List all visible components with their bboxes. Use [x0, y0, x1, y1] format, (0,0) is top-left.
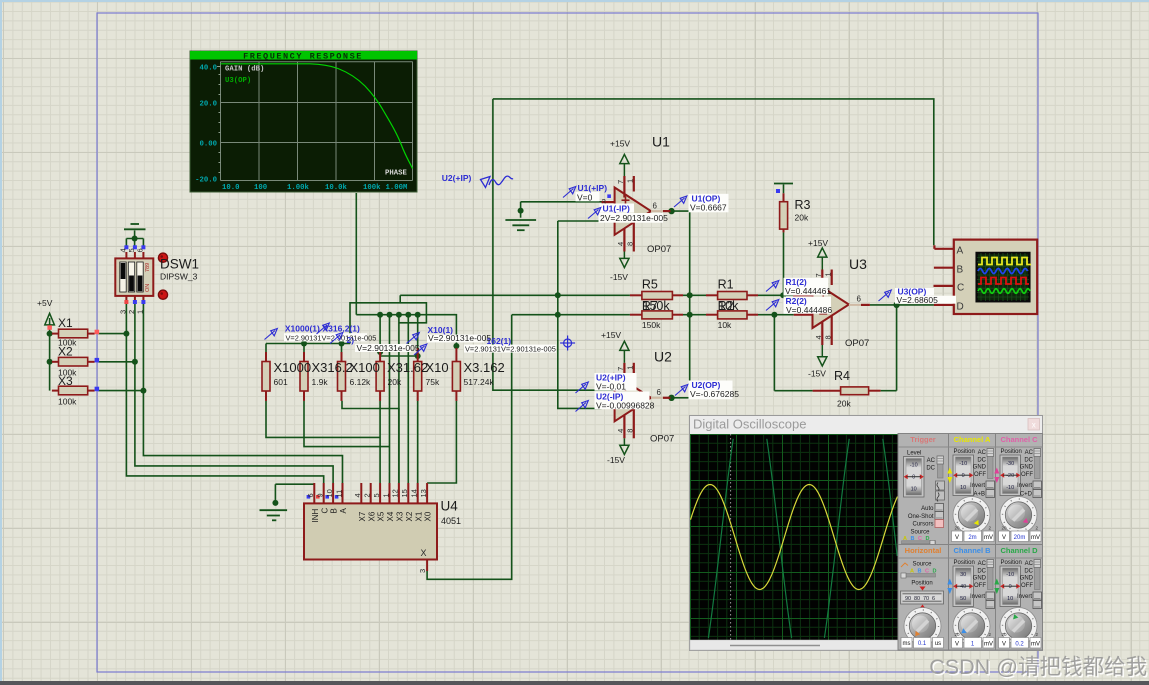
svg-text:0.1: 0.1 [918, 641, 927, 647]
svg-text:PHASE: PHASE [385, 170, 408, 178]
svg-text:C: C [320, 508, 329, 514]
svg-text:X2: X2 [405, 511, 414, 521]
svg-text:150k: 150k [643, 299, 671, 313]
svg-text:Position: Position [1001, 560, 1022, 566]
svg-text:Level: Level [907, 451, 921, 457]
svg-text:0: 0 [912, 475, 915, 481]
svg-text:601: 601 [274, 377, 288, 387]
svg-text:6: 6 [135, 248, 144, 252]
svg-text:V=-0.676285: V=-0.676285 [690, 389, 739, 399]
svg-text:6.12k: 6.12k [350, 377, 372, 387]
svg-text:mV: mV [1031, 642, 1040, 648]
svg-text:0.2: 0.2 [1015, 642, 1024, 648]
svg-text:789: 789 [145, 263, 151, 272]
svg-text:X10: X10 [426, 360, 449, 375]
svg-text:GND: GND [1020, 576, 1034, 582]
svg-text:70: 70 [923, 596, 929, 602]
svg-text:U1(-IP): U1(-IP) [603, 204, 631, 214]
svg-text:40: 40 [960, 584, 966, 590]
svg-text:10: 10 [960, 485, 966, 491]
svg-text:GND: GND [973, 465, 987, 471]
svg-text:X0: X0 [424, 511, 433, 521]
svg-text:U1: U1 [652, 134, 670, 150]
svg-text:mV: mV [984, 642, 993, 648]
svg-text:V=0.444486: V=0.444486 [786, 305, 832, 315]
svg-text:X5: X5 [377, 511, 386, 521]
svg-text:4: 4 [616, 242, 625, 246]
svg-text:V=2.68605: V=2.68605 [897, 295, 939, 305]
svg-text:mV: mV [1031, 535, 1040, 541]
svg-text:Source: Source [912, 562, 932, 568]
svg-text:U3(OP): U3(OP) [225, 77, 251, 85]
svg-text:-10: -10 [1006, 572, 1014, 578]
svg-text:B: B [330, 508, 339, 513]
svg-text:80: 80 [914, 596, 920, 602]
svg-text:10.0: 10.0 [222, 184, 240, 192]
svg-text:20k: 20k [795, 213, 809, 223]
svg-text:+5V: +5V [37, 298, 53, 308]
svg-text:20k: 20k [837, 399, 851, 409]
svg-text:R3: R3 [795, 198, 811, 212]
svg-text:0.00: 0.00 [199, 141, 217, 149]
svg-text:AC: AC [1025, 561, 1034, 567]
svg-text:C: C [957, 283, 964, 294]
svg-text:Invert: Invert [970, 594, 985, 600]
svg-text:100k: 100k [58, 397, 77, 407]
svg-text:12: 12 [391, 489, 400, 497]
svg-text:1.00k: 1.00k [287, 184, 310, 192]
svg-text:Position: Position [954, 560, 975, 566]
svg-text:V=2.90131V=2.90131e-005: V=2.90131V=2.90131e-005 [286, 334, 377, 343]
svg-text:6: 6 [657, 388, 662, 397]
svg-text:Channel C: Channel C [1000, 435, 1038, 444]
svg-text:AC: AC [978, 561, 987, 567]
svg-text:X: X [421, 548, 427, 558]
svg-text:20m: 20m [1014, 535, 1026, 541]
svg-text:GAIN (dB): GAIN (dB) [225, 65, 264, 73]
svg-text:1.00M: 1.00M [386, 184, 409, 192]
svg-text:Channel B: Channel B [953, 546, 991, 555]
svg-text:X316.2: X316.2 [312, 360, 353, 375]
svg-text:5: 5 [372, 493, 381, 497]
svg-text:-30: -30 [1006, 461, 1014, 467]
svg-text:20: 20 [1002, 526, 1008, 531]
svg-text:20: 20 [955, 526, 961, 531]
svg-text:V=2.90131e-005: V=2.90131e-005 [428, 333, 491, 343]
svg-text:100k: 100k [363, 184, 381, 192]
svg-text:Invert: Invert [1017, 483, 1032, 489]
svg-text:DC: DC [977, 568, 986, 574]
svg-text:OFF: OFF [1021, 583, 1033, 589]
svg-text:OP07: OP07 [647, 244, 671, 255]
svg-text:Cursors: Cursors [912, 522, 933, 528]
svg-text:V=0: V=0 [577, 192, 593, 202]
svg-text:1: 1 [626, 179, 635, 183]
svg-text:7: 7 [814, 273, 823, 277]
svg-text:U1(+IP): U1(+IP) [578, 183, 608, 193]
svg-text:100: 100 [254, 184, 267, 192]
svg-text:7: 7 [616, 367, 625, 371]
svg-text:+15V: +15V [601, 330, 621, 340]
svg-text:6: 6 [932, 596, 935, 602]
svg-text:ms: ms [903, 641, 911, 647]
svg-text:6: 6 [306, 493, 315, 497]
svg-text:DC: DC [1024, 568, 1033, 574]
svg-text:-10: -10 [959, 461, 967, 467]
svg-text:V=2.90131e-005: V=2.90131e-005 [357, 343, 420, 353]
svg-text:4: 4 [814, 335, 823, 339]
svg-text:X3: X3 [396, 511, 405, 521]
svg-text:X4: X4 [386, 511, 395, 521]
svg-text:X100: X100 [350, 360, 380, 375]
svg-text:10: 10 [325, 489, 334, 497]
svg-text:DC: DC [977, 457, 986, 463]
svg-text:11: 11 [334, 490, 343, 498]
svg-text:GND: GND [1020, 465, 1034, 471]
svg-text:X7: X7 [358, 511, 367, 521]
svg-text:X3: X3 [58, 374, 73, 388]
svg-text:4051: 4051 [441, 516, 461, 526]
svg-text:1: 1 [626, 366, 635, 370]
svg-text:150k: 150k [642, 320, 661, 330]
svg-text:517.24k: 517.24k [464, 377, 495, 387]
svg-text:-15V: -15V [610, 272, 628, 282]
svg-text:AC: AC [1025, 450, 1034, 456]
svg-text:Digital Oscilloscope: Digital Oscilloscope [693, 417, 806, 432]
svg-text:us: us [935, 641, 941, 647]
svg-text:V=2.90131V=2.90131e-005: V=2.90131V=2.90131e-005 [465, 345, 556, 354]
svg-text:Source: Source [910, 530, 930, 536]
svg-text:OP07: OP07 [845, 338, 869, 349]
svg-text:2: 2 [363, 493, 372, 497]
svg-text:30: 30 [960, 572, 966, 578]
svg-text:6: 6 [653, 202, 658, 211]
svg-text:1: 1 [381, 493, 390, 497]
svg-text:X6: X6 [367, 511, 376, 521]
svg-text:75k: 75k [426, 377, 440, 387]
svg-text:-20: -20 [1006, 473, 1014, 479]
svg-text:Position: Position [1001, 449, 1022, 455]
svg-text:10: 10 [1007, 596, 1013, 602]
svg-text:3: 3 [418, 569, 427, 573]
svg-text:R4: R4 [834, 369, 850, 383]
svg-text:X1: X1 [414, 511, 423, 521]
svg-text:8: 8 [626, 429, 635, 433]
svg-text:U2(+IP): U2(+IP) [442, 173, 472, 183]
svg-text:FREQUENCY RESPONSE: FREQUENCY RESPONSE [243, 51, 363, 61]
svg-text:AC: AC [978, 450, 987, 456]
svg-text:DC: DC [1024, 457, 1033, 463]
svg-text:OFF: OFF [974, 472, 986, 478]
svg-text:ON: ON [145, 284, 151, 292]
svg-text:V=-0.00996828: V=-0.00996828 [596, 401, 655, 411]
svg-text:OFF: OFF [974, 583, 986, 589]
svg-text:V=0.6667: V=0.6667 [690, 202, 727, 212]
svg-text:Horizontal: Horizontal [905, 546, 942, 555]
svg-text:15: 15 [400, 489, 409, 497]
svg-text:R5: R5 [642, 278, 658, 292]
svg-text:10.0k: 10.0k [325, 184, 348, 192]
svg-text:-10: -10 [910, 463, 918, 469]
svg-text:4: 4 [353, 493, 362, 497]
svg-text:U4: U4 [441, 499, 459, 514]
svg-text:0: 0 [1009, 584, 1012, 590]
svg-text:AC: AC [927, 458, 936, 464]
svg-text:Invert: Invert [1017, 594, 1032, 600]
svg-text:Trigger: Trigger [910, 435, 936, 444]
svg-text:DSW1: DSW1 [160, 257, 199, 272]
svg-text:Invert: Invert [970, 483, 985, 489]
svg-text:X1: X1 [58, 316, 73, 330]
svg-text:7: 7 [616, 180, 625, 184]
svg-text:20: 20 [955, 632, 961, 637]
svg-text:2V=2.90131e-005: 2V=2.90131e-005 [600, 213, 668, 223]
svg-text:V=0.444461: V=0.444461 [785, 286, 831, 296]
svg-text:OP07: OP07 [650, 434, 674, 445]
svg-text:D: D [957, 302, 964, 313]
svg-text:20: 20 [1002, 632, 1008, 637]
svg-text:40.0: 40.0 [199, 65, 217, 73]
svg-text:14: 14 [410, 489, 419, 497]
svg-text:A: A [339, 508, 348, 514]
svg-text:V: V [955, 535, 959, 541]
svg-text:DIPSW_3: DIPSW_3 [160, 272, 198, 282]
svg-text:GND: GND [973, 576, 987, 582]
svg-text:2m: 2m [968, 535, 976, 541]
svg-text:V: V [955, 642, 959, 648]
svg-text:-10: -10 [1006, 485, 1014, 491]
svg-text:20k: 20k [388, 377, 402, 387]
svg-text:1: 1 [824, 272, 833, 276]
svg-text:10k: 10k [718, 320, 732, 330]
svg-text:Channel A: Channel A [954, 435, 991, 444]
svg-text:R1: R1 [718, 278, 734, 292]
svg-text:Position: Position [911, 581, 932, 587]
svg-text:0: 0 [962, 473, 965, 479]
svg-text:V: V [1002, 642, 1006, 648]
svg-text:20.0: 20.0 [199, 101, 217, 109]
svg-text:U3: U3 [849, 256, 867, 272]
svg-text:1.9k: 1.9k [312, 377, 329, 387]
svg-text:Auto: Auto [921, 506, 934, 512]
svg-text:1: 1 [135, 310, 144, 314]
svg-text:13: 13 [419, 489, 428, 497]
svg-text:OFF: OFF [1021, 472, 1033, 478]
svg-text:4: 4 [616, 429, 625, 433]
svg-text:8: 8 [824, 335, 833, 339]
svg-text:V: V [1002, 535, 1006, 541]
svg-text:10: 10 [911, 487, 917, 493]
svg-text:-15V: -15V [808, 369, 826, 379]
svg-text:INH: INH [311, 509, 320, 523]
svg-text:X1000: X1000 [274, 360, 312, 375]
svg-text:-20.0: -20.0 [195, 177, 217, 185]
svg-text:X31.62: X31.62 [387, 360, 428, 375]
svg-text:x: x [1032, 420, 1036, 429]
svg-text:90: 90 [905, 596, 911, 602]
svg-text:B: B [957, 265, 964, 276]
svg-text:10k: 10k [718, 299, 739, 313]
svg-text:+15V: +15V [808, 238, 828, 248]
svg-text:Position: Position [954, 449, 975, 455]
svg-text:Channel D: Channel D [1000, 546, 1038, 555]
svg-text:One-Shot: One-Shot [908, 514, 934, 520]
svg-text:U2: U2 [654, 349, 672, 365]
svg-text:X2: X2 [58, 345, 73, 359]
svg-text:-15V: -15V [607, 455, 625, 465]
svg-text:+15V: +15V [610, 139, 630, 149]
svg-text:A: A [957, 246, 964, 257]
svg-text:V=-0.01: V=-0.01 [596, 382, 626, 392]
svg-text:X1000(1): X1000(1) [285, 324, 320, 334]
svg-text:DC: DC [926, 466, 935, 472]
svg-text:50: 50 [960, 596, 966, 602]
svg-text:9: 9 [316, 493, 325, 497]
svg-text:mV: mV [984, 535, 993, 541]
svg-text:8: 8 [626, 242, 635, 246]
svg-text:X3.162: X3.162 [464, 360, 505, 375]
svg-text:6: 6 [857, 295, 862, 304]
